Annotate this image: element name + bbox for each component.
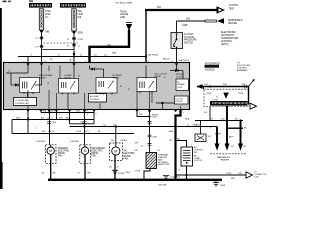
fan motor M1 (primary)	[46, 145, 57, 164]
svg-text:344 PK/LB: 344 PK/LB	[148, 54, 159, 56]
svg-text:14: 14	[187, 124, 189, 126]
svg-text:C316: C316	[226, 173, 232, 175]
clutch cycling pressure switch	[171, 21, 183, 49]
svg-text:741: 741	[103, 124, 106, 126]
connector pin labels	[206, 93, 244, 101]
thick line 184 to test	[145, 9, 217, 11]
F2 value labels	[78, 10, 84, 19]
svg-text:347: 347	[231, 146, 234, 148]
svg-text:SECONDARY: SECONDARY	[91, 147, 106, 150]
svg-text:22B: 22B	[76, 111, 80, 113]
svg-text:SWITCH: SWITCH	[184, 42, 193, 44]
svg-text:RD/LG: RD/LG	[163, 58, 170, 60]
test connector dashed box	[204, 89, 249, 106]
svg-text:3: 3	[183, 112, 184, 114]
svg-text:TN/LB: TN/LB	[238, 93, 244, 95]
svg-text:M: M	[114, 150, 117, 154]
open arrow to C316	[246, 172, 253, 178]
a/c clutch coil component	[181, 147, 193, 166]
label medium fan relay	[39, 74, 53, 79]
connector C2 on col2	[72, 44, 76, 47]
F1 value labels	[45, 10, 51, 19]
wire K1 to controller label	[27, 93, 29, 98]
svg-text:CONTROL: CONTROL	[90, 99, 101, 101]
wire 348	[197, 86, 249, 88]
svg-text:(C)324 BK: (C)324 BK	[70, 141, 80, 143]
page header specks top-left	[3, 1, 7, 3]
relay K1 (fan relay)	[20, 78, 40, 93]
svg-text:WINDSHIELD: WINDSHIELD	[228, 20, 243, 22]
svg-text:6: 6	[86, 61, 87, 63]
wire drop x149.5 to resistor	[149, 110, 151, 153]
wire col1 down	[41, 32, 43, 56]
svg-text:CUTOUT: CUTOUT	[176, 76, 184, 78]
svg-text:4: 4	[148, 61, 149, 63]
thick drop right side of module	[176, 110, 181, 180]
feed to clutch coil	[176, 141, 187, 148]
thick feeds to manual a/c	[216, 127, 218, 144]
module top edge connector pins	[26, 63, 178, 66]
wire M1 to ground	[50, 154, 52, 179]
svg-text:30: 30	[47, 83, 49, 85]
pin drop x137 elbow	[137, 110, 150, 117]
svg-text:SW: SW	[194, 152, 197, 154]
svg-text:BK/PK: BK/PK	[215, 133, 222, 135]
label clutch switch	[184, 34, 197, 44]
svg-text:W/R: W/R	[231, 178, 236, 180]
svg-text:TEMPERATURE: TEMPERATURE	[221, 37, 239, 40]
svg-text:(F): (F)	[50, 59, 53, 61]
label EATC	[221, 32, 239, 46]
svg-text:RELAY: RELAY	[113, 77, 120, 80]
svg-text:HOT AT ALL TIMES: HOT AT ALL TIMES	[116, 2, 133, 5]
wire drop x134 to blower box	[115, 127, 117, 148]
wire C324 jumper	[70, 123, 95, 125]
connector C101 on col1	[40, 37, 44, 40]
bus C	[70, 126, 218, 128]
svg-text:DEMAND: DEMAND	[177, 83, 185, 86]
module bottom edge connector pins	[26, 110, 182, 113]
fuse link 184 text	[120, 11, 129, 18]
wire stub into module x28	[27, 57, 29, 64]
svg-text:8: 8	[172, 61, 173, 63]
svg-text:FAN: FAN	[58, 155, 63, 158]
svg-text:7: 7	[26, 114, 27, 116]
label blower relay	[113, 75, 123, 79]
svg-text:LA8P: LA8P	[182, 24, 188, 27]
wire drop x69.5	[69, 110, 71, 124]
ground glyph near resistor drop	[163, 175, 169, 178]
wire to connector C316	[176, 174, 247, 176]
svg-text:14: 14	[8, 71, 10, 73]
banner HOT AT ALL TIMES (left)	[29, 3, 52, 8]
svg-text:86: 86	[120, 86, 122, 88]
svg-text:(C)324 BK: (C)324 BK	[36, 141, 46, 143]
svg-text:NDA: NDA	[185, 118, 190, 121]
svg-text:CLUTCH: CLUTCH	[194, 160, 203, 162]
wire 348 turns down	[248, 87, 250, 105]
connector arrow into module	[88, 62, 92, 65]
wire drop x41	[40, 110, 42, 113]
junction dots on feed wire	[73, 55, 75, 57]
wire col1 drop inside module	[41, 66, 43, 86]
svg-text:TEST: TEST	[229, 8, 235, 10]
svg-text:BK/Y: BK/Y	[84, 131, 89, 133]
label bar CONTROLLER	[205, 65, 220, 68]
svg-text:THICK: THICK	[120, 11, 127, 13]
svg-text:C10B: C10B	[125, 172, 131, 174]
internal wire top-left	[6, 72, 28, 74]
wire drop x94	[93, 110, 95, 124]
svg-text:14Y: 14Y	[235, 118, 239, 120]
connector pin arrow	[223, 93, 228, 99]
fusible link column F2	[72, 9, 76, 31]
svg-text:RELAY: RELAY	[155, 75, 162, 78]
svg-text:14Y: 14Y	[135, 143, 139, 145]
fusible link symbol (bowtie)	[126, 21, 132, 23]
svg-text:CONTROL: CONTROL	[221, 41, 233, 43]
svg-text:21: 21	[58, 55, 60, 57]
wire drop x49 to fan1	[49, 110, 51, 145]
fusible link column F1	[39, 9, 43, 30]
wire row y120.5	[195, 120, 243, 122]
left page edge black border	[0, 8, 2, 189]
svg-text:RESISTOR: RESISTOR	[158, 164, 170, 166]
banner 8P RED TEST CONNECTOR	[210, 101, 248, 106]
diode D1	[11, 83, 21, 86]
manual a/c heater arrows	[215, 144, 244, 151]
svg-text:14Y: 14Y	[135, 150, 139, 152]
junction dot col2/wire	[73, 53, 75, 55]
svg-text:3: 3	[70, 61, 71, 63]
svg-text:TO 5H63: TO 5H63	[229, 5, 239, 7]
label hi fan relay	[65, 74, 72, 79]
svg-text:(Y): (Y)	[45, 16, 49, 19]
svg-text:CYCLING: CYCLING	[184, 37, 194, 39]
open arrow to test	[217, 6, 226, 14]
fan motor M2 (secondary)	[80, 145, 91, 164]
svg-text:C208: C208	[152, 117, 158, 119]
relay K4 (a/c clutch relay)	[137, 78, 157, 92]
arrow to ECA	[249, 81, 254, 87]
wire 184 to heater module	[177, 20, 206, 22]
small box bottom right of module	[175, 96, 189, 104]
svg-text:17B1 BA: 17B1 BA	[158, 183, 167, 186]
svg-text:PK/BK: PK/BK	[121, 140, 128, 142]
ground G103	[213, 180, 226, 187]
svg-text:4: 4	[87, 114, 88, 116]
svg-text:BK/O: BK/O	[48, 117, 53, 119]
svg-text:(C)303 64: (C)303 64	[171, 177, 181, 179]
svg-text:57: 57	[178, 169, 180, 171]
connector ticks on fan drops	[47, 122, 87, 124]
svg-text:ASSEMBLY: ASSEMBLY	[237, 69, 249, 72]
banner HOT AT ALL TIMES (right)	[60, 3, 86, 8]
svg-text:2: 2	[67, 114, 68, 116]
svg-text:HEATER: HEATER	[221, 159, 230, 162]
dashed wire	[44, 42, 79, 44]
svg-text:BK/O: BK/O	[51, 111, 56, 113]
splice S205	[73, 31, 76, 34]
svg-text:36A: 36A	[112, 51, 116, 54]
svg-text:14B: 14B	[45, 31, 50, 33]
svg-text:ELECTRONIC: ELECTRONIC	[221, 32, 236, 34]
svg-text:HEATER: HEATER	[228, 22, 237, 25]
label box cooling fan controller	[14, 98, 37, 106]
wire crossbar to manual a/c feeds	[227, 127, 243, 129]
svg-text:M: M	[49, 149, 52, 153]
svg-text:14Y: 14Y	[139, 114, 143, 116]
svg-text:22B: 22B	[16, 117, 20, 119]
label INTEGRATED CONTROLLER MODULE	[205, 63, 220, 72]
bus D	[12, 133, 134, 135]
label box blower control	[89, 94, 107, 103]
diode D2	[90, 66, 104, 78]
svg-text:BLOWER: BLOWER	[90, 96, 99, 98]
svg-text:DRIVER: DRIVER	[176, 101, 183, 103]
connector C206 on col2	[72, 37, 76, 40]
svg-text:S20: S20	[204, 112, 207, 114]
wire between columns	[42, 49, 75, 51]
logic box U1	[176, 73, 189, 90]
wire drop x84.5 to fan2	[84, 110, 86, 145]
svg-text:S205: S205	[78, 32, 84, 34]
svg-text:FAN: FAN	[91, 155, 96, 158]
wire 348 below switch	[176, 49, 178, 63]
svg-text:TN/LB: TN/LB	[206, 93, 212, 95]
relay K3 (blower relay)	[96, 78, 117, 94]
svg-text:RELAY: RELAY	[39, 77, 46, 80]
svg-text:6: 6	[96, 114, 97, 116]
svg-text:CONTROLLER: CONTROLLER	[15, 103, 29, 105]
svg-text:87: 87	[128, 89, 130, 91]
svg-text:A/C: A/C	[124, 150, 128, 153]
svg-text:57 BK: 57 BK	[135, 171, 141, 173]
svg-text:C280: C280	[152, 137, 158, 139]
svg-text:5: 5	[44, 114, 45, 116]
wire stub into module x43	[41, 57, 43, 64]
svg-text:PRESSURE: PRESSURE	[184, 40, 197, 42]
svg-text:14: 14	[80, 55, 82, 57]
junction dot inside module	[161, 102, 163, 104]
relay K2 (hi fan relay)	[59, 79, 79, 94]
wire 184 riser	[145, 10, 147, 62]
svg-text:(M): (M)	[78, 16, 82, 19]
relay pin dots	[23, 92, 152, 95]
connector arrow into module	[144, 62, 148, 65]
svg-text:(EATC): (EATC)	[221, 43, 229, 46]
wire drop x56.5	[56, 110, 58, 120]
misc tiny pin/wire labels	[8, 55, 247, 172]
svg-text:S303: S303	[220, 185, 226, 187]
svg-text:14: 14	[216, 97, 218, 99]
svg-text:9: 9	[59, 114, 60, 116]
svg-text:AUTOMATIC: AUTOMATIC	[221, 34, 235, 37]
svg-text:PRIMARY: PRIMARY	[58, 147, 69, 150]
label a/c clutch relay	[155, 72, 168, 78]
svg-text:321: 321	[216, 146, 219, 148]
wire drop x28	[27, 110, 29, 134]
svg-text:2: 2	[24, 61, 25, 63]
svg-text:M: M	[84, 149, 87, 153]
label MODULE I/O HEATER	[228, 20, 243, 25]
svg-text:LINK: LINK	[120, 17, 126, 19]
svg-text:85: 85	[78, 76, 80, 78]
bus B	[12, 119, 94, 121]
diode D3	[170, 66, 183, 80]
svg-text:CLUTCH: CLUTCH	[184, 34, 194, 36]
thick feed bar 184	[90, 30, 130, 63]
demand switch box	[195, 134, 206, 142]
splice S1	[40, 30, 43, 33]
label TO TEST	[229, 5, 239, 10]
svg-text:COOLING FAN: COOLING FAN	[15, 99, 29, 102]
svg-text:1: 1	[139, 111, 140, 113]
label TO ELECTRONIC CONTROL ASSEMBLY	[237, 63, 251, 73]
svg-text:CLUTCH: CLUTCH	[176, 98, 184, 100]
svg-text:C206: C206	[78, 39, 84, 41]
wire col2 down	[73, 33, 75, 63]
clutch coil to ground	[186, 166, 188, 180]
blower motor M3	[110, 143, 123, 161]
internal wires to bottom pins	[28, 90, 181, 109]
wire M3 to ground	[114, 155, 116, 180]
svg-text:MANUAL A/C: MANUAL A/C	[217, 156, 231, 159]
open arrow right of banner	[250, 103, 257, 109]
svg-text:14D: 14D	[221, 118, 225, 120]
svg-text:LOGIC: LOGIC	[177, 87, 183, 89]
connector C102 on col1	[40, 45, 44, 48]
svg-text:C324: C324	[76, 131, 82, 133]
svg-text:1: 1	[45, 61, 46, 63]
svg-text:56: 56	[164, 77, 166, 79]
svg-text:BK/O: BK/O	[49, 131, 54, 133]
svg-text:RELAY: RELAY	[65, 77, 72, 80]
blower resistor R10	[146, 153, 157, 169]
bus A	[41, 112, 94, 114]
svg-text:GAUGE: GAUGE	[120, 13, 129, 16]
wire M2 to ground	[84, 154, 86, 179]
filled arrow left	[217, 18, 224, 24]
svg-text:BK/Y: BK/Y	[229, 136, 234, 138]
svg-text:FAN: FAN	[124, 157, 129, 160]
main feed wire	[18, 56, 146, 58]
svg-text:MODULE: MODULE	[205, 70, 215, 72]
wire resistor to ground	[144, 169, 150, 180]
svg-text:C324: C324	[51, 122, 57, 124]
svg-text:348 PK/LG: 348 PK/LG	[179, 60, 190, 62]
svg-text:14B: 14B	[43, 111, 47, 113]
